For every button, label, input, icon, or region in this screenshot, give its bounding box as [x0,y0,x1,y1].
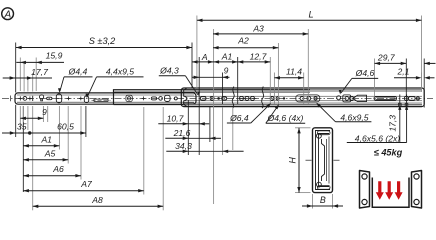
extension line L right [421,16,423,88]
label Ø4,3 with leader [159,65,200,96]
dimension 9 top [192,66,229,79]
dimension 60,5 [30,122,86,135]
svg-text:35: 35 [17,122,27,132]
dimension 15,9 [16,51,64,64]
rivet cross hole 5 [79,97,83,99]
svg-text:9: 9 [42,107,47,117]
svg-text:A7: A7 [80,179,93,189]
extension line A1 right [237,57,239,104]
dimension 21,6 [165,128,221,140]
extension line A8 right [162,107,164,210]
break line 1 [232,87,234,109]
svg-text:Ø4,6: Ø4,6 [355,68,375,78]
small slot hole (4,4x9,5 target) [84,96,88,103]
middle member horizontal slot [151,97,156,100]
svg-text:A1: A1 [221,52,233,62]
long bottom slot hole [94,99,108,101]
extension line 10,7 left common [187,100,189,155]
outer member hole oval [200,97,206,100]
svg-text:15,9: 15,9 [46,51,63,61]
load icon red arrow 3 [395,181,403,200]
extension line hole x27.9 upper [27,78,29,92]
round hole 1 [23,97,27,101]
extension line A3/A2/A left common [213,29,215,204]
section retainer pill top [317,131,330,135]
extension line A3 right [307,29,309,104]
outer member left end cap [184,89,187,107]
extension line hole x32.7 lower [32,106,34,210]
label Ø4,6 (4x) with leader [266,103,305,123]
load icon drawer box [372,178,409,208]
hole circle x277.5 [276,97,279,100]
section centre line ticks [306,159,312,161]
section inner detail lines [326,139,328,181]
extension line 35 left rail end lower [15,105,17,137]
small pill right end [409,97,416,100]
dimension A [192,52,214,64]
dimension A7 [23,179,144,192]
svg-text:≤ 45kg: ≤ 45kg [374,147,403,157]
dimension A5 [23,148,68,161]
svg-text:29,7: 29,7 [377,52,396,62]
label Ø6,4 with leader [227,102,272,123]
dimension 17,3 vertical [388,95,402,143]
dimension 10,7 [158,113,209,125]
svg-text:A2: A2 [237,35,249,45]
extension line A6 right [80,106,82,180]
load icon left rail bracket [360,171,370,209]
H dimension extension top [295,127,311,129]
dimension A3 [213,24,308,36]
load icon red arrow 2 [385,181,393,200]
vertical slot 4,4x9,5 [56,94,61,103]
rail inner member outline [15,93,196,104]
svg-text:2,1: 2,1 [397,66,410,76]
svg-text:S ±3,2: S ±3,2 [89,36,116,46]
svg-text:Ø4,4: Ø4,4 [68,66,88,76]
extension line A2 right [277,43,279,104]
dimension 34,3 [166,141,243,153]
extension line rail end right [423,59,425,108]
dimension 17,7 [3,67,52,80]
outer member slot x224 [222,97,227,100]
svg-text:A5: A5 [44,148,56,158]
keyhole mounting hole [40,95,44,99]
dimension 11,4 [274,66,303,79]
round hole Ø4,6 target [337,96,341,100]
label Ø4,6 top right with leader [339,68,379,94]
outer member hole circle x212 [210,96,214,100]
svg-text:21,6: 21,6 [173,128,191,138]
extension line S left / rail end [15,43,17,93]
section ball top [317,133,322,138]
label 4,4x9,5 with leader [86,66,144,98]
extension line 17,7 right hole [32,73,34,92]
extension line hole x43.4 lower [42,106,44,122]
extension line 11,4 left [273,73,275,105]
extension line 34,3 right [222,107,224,155]
view label circled A [2,8,14,21]
hole chain circles 241-253 [240,96,244,100]
dimension 29,7 outer tail arrow at rail end [424,62,435,65]
round hole x418 [416,97,419,100]
extension line hole x24 upper [23,64,25,92]
extension line L left [196,16,198,89]
svg-text:H: H [288,156,298,163]
hole circle x272 [270,97,274,101]
hole dot x284 [283,97,285,99]
extension line hole x47.7 lower [47,106,49,122]
svg-text:A3: A3 [252,24,264,34]
break line 2 [262,87,264,109]
small hole 3 [32,96,34,101]
section view inner member [322,139,325,181]
dimension L [197,9,422,22]
section retainer pill bottom [317,186,330,190]
extension line 12,7 right [269,57,271,104]
svg-text:A8: A8 [91,195,103,205]
rivet cross hole 4 [67,97,71,99]
svg-text:Ø4,3: Ø4,3 [159,65,179,75]
svg-text:B: B [320,195,326,205]
dimension B [302,195,343,208]
boxed rivet hole [126,95,132,101]
middle member cross hole [142,97,146,99]
horizontal slot hole [47,97,52,100]
H dimension extension bottom [295,192,311,194]
extension line 11,4 right [303,73,305,105]
extension line 10,7 right [198,104,200,155]
section ball bottom [317,182,322,187]
load icon right rail bracket [412,171,422,209]
dimension A1 top [214,52,238,64]
dimension 12,7 [238,52,271,64]
section view outer member C-channel [316,131,331,190]
middle member round hole [159,97,163,101]
dimension H [288,128,301,193]
extension line 60,5 right [85,106,87,137]
section view outer profile [313,128,333,193]
svg-text:Ø6,4: Ø6,4 [229,113,249,123]
middle member bottom edge [114,104,197,106]
extension line 15,9 right [35,58,37,92]
svg-text:A: A [201,52,208,62]
svg-text:12,7: 12,7 [250,52,268,62]
extension line hole x23 common lower [22,106,24,192]
svg-text:10,7: 10,7 [167,113,185,123]
dimension A8 [33,195,164,208]
dimension A6 [23,164,81,177]
dimension 9 bottom [20,107,47,120]
rivet cross hole 1 [18,97,22,99]
label 4,6x5,6 (2x) [347,95,408,144]
svg-text:9: 9 [224,66,229,76]
load icon red arrow 1 [376,181,384,200]
label 4,6x9,5 with leader [315,102,371,123]
svg-text:A1: A1 [40,134,52,144]
outer member inner stripe lines [183,89,422,91]
svg-text:11,4: 11,4 [286,66,302,76]
svg-text:4,4x9,5: 4,4x9,5 [106,66,134,76]
extension line 29,7 left [374,59,376,97]
svg-text:17,7: 17,7 [31,67,49,77]
extension line 2,1 left [421,73,423,93]
B dimension extension left [312,194,314,209]
dimension 29,7 [375,52,407,65]
extension line hole x232.8 lower [232,107,234,150]
rail inner member inner contour lines [17,94,194,96]
svg-text:A6: A6 [52,164,64,174]
dimension S ±3,2 [16,36,192,49]
extension line A5 right [67,106,69,164]
rail middle member outline [114,90,311,105]
extension line 15,9 left [19,58,21,92]
section view middle member [319,134,330,187]
B dimension extension right [332,194,334,209]
svg-text:34,3: 34,3 [175,141,192,151]
extension line 29,7 right [405,59,407,97]
hole group 297-318 [296,95,320,102]
centre line tick at left end [10,96,12,102]
extension line A right hole [198,57,200,104]
svg-text:60,5: 60,5 [57,122,74,132]
outer member hole dot x218 [217,97,220,100]
rail centre line [2,97,433,99]
svg-text:A: A [3,10,11,21]
dimension A2 [213,35,278,49]
svg-text:L: L [308,9,313,19]
middle member vertical slot [165,95,171,101]
extension line hole x27.9 lower [27,106,29,130]
round hole x406 [404,96,408,100]
middle member top gray band [114,90,421,92]
dimension 35 with origin dot [2,122,31,135]
outer member bottom gray band [183,104,422,106]
dimension 2,1 [394,66,435,79]
svg-text:17,3: 17,3 [388,115,398,132]
boxed hole x346.5 [343,95,351,102]
extension line S right [191,43,193,89]
latch pointed detail [353,95,367,101]
label Ø4,4 with leader [58,66,93,93]
rail outer member outline [181,88,424,107]
bottom flange slots (4,6x5,6 targets) [399,103,402,106]
extension line 9 top right [222,73,224,105]
svg-text:4,6x5,6 (2x): 4,6x5,6 (2x) [355,133,401,143]
svg-text:4,6x9,5: 4,6x9,5 [340,112,368,122]
extension line 9 bottom left hole [22,106,24,122]
extension line A1 bottom right [58,106,60,150]
long slot 374-397 [374,97,397,101]
dimension A1 bottom [23,134,59,147]
middle member small hole [174,97,177,100]
extension line A7 right [143,107,145,195]
round hole x351.5 [350,96,354,100]
rivet cross hole 2 [28,97,32,99]
extension line hole x20.3 lower [19,106,21,130]
extension line 21,6 right [209,107,211,142]
